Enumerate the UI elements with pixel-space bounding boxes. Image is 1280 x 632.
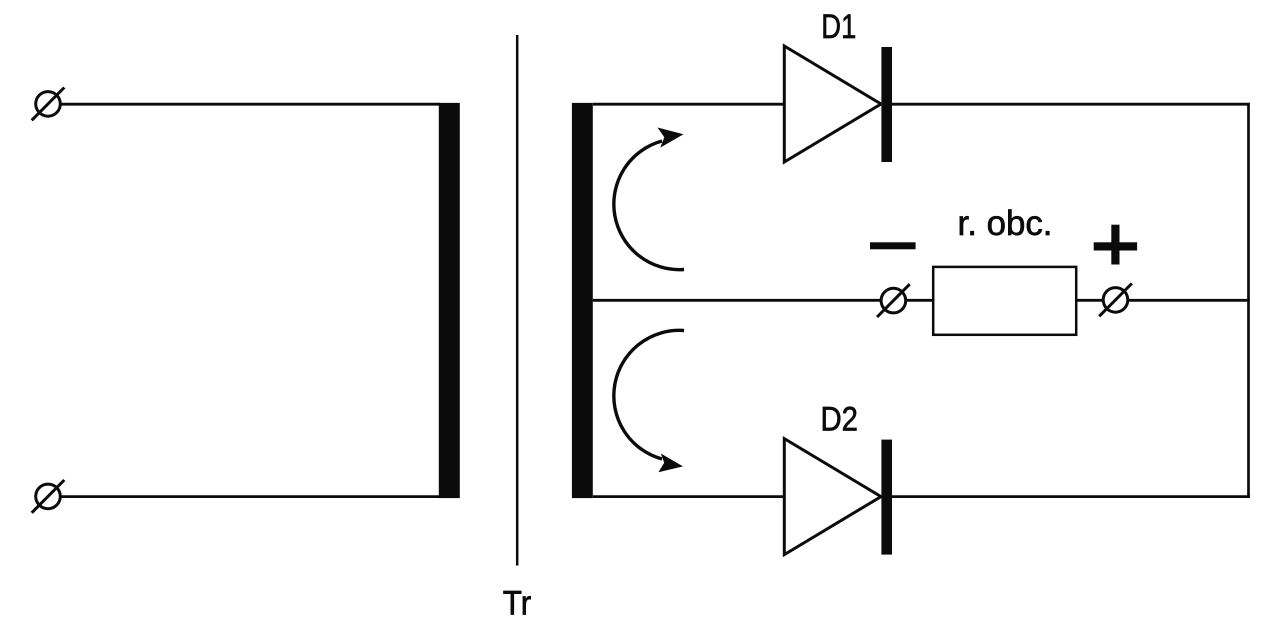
svg-text:Tr: Tr — [503, 585, 532, 623]
svg-text:D2: D2 — [820, 400, 858, 438]
wire primary top — [60, 103, 440, 106]
diode D1 — [784, 46, 892, 162]
terminal T1 (primary top input) — [32, 88, 65, 121]
terminal T3 (output minus) — [877, 284, 910, 317]
transformer core — [516, 35, 519, 566]
wire secondary top to D1 — [593, 103, 785, 106]
label plus — [1094, 225, 1137, 265]
terminal T4 (output plus) — [1099, 284, 1132, 317]
wire right vertical — [1247, 103, 1250, 498]
wire D2 to right edge — [892, 495, 1250, 498]
transformer secondary winding bar — [572, 103, 593, 498]
resistor r. obc. (load) — [933, 267, 1076, 335]
wire minus terminal to resistor — [906, 299, 934, 302]
wire plus terminal to right edge — [1129, 299, 1250, 302]
wire center tap to minus terminal — [593, 299, 881, 302]
terminal T2 (primary bottom input) — [32, 480, 65, 513]
wire secondary bottom to D2 — [593, 495, 785, 498]
transformer primary winding bar — [439, 103, 460, 498]
current direction arrow top (arc) — [614, 128, 684, 270]
svg-text:D1: D1 — [821, 8, 856, 46]
label minus — [870, 242, 916, 249]
svg-text:r. obc.: r. obc. — [958, 204, 1053, 243]
diode D2 — [784, 439, 892, 555]
current direction arrow bottom (arc) — [614, 330, 684, 472]
wire primary bottom — [60, 495, 440, 498]
wire D1 to right edge — [892, 103, 1250, 106]
wire resistor to plus terminal — [1076, 299, 1102, 302]
